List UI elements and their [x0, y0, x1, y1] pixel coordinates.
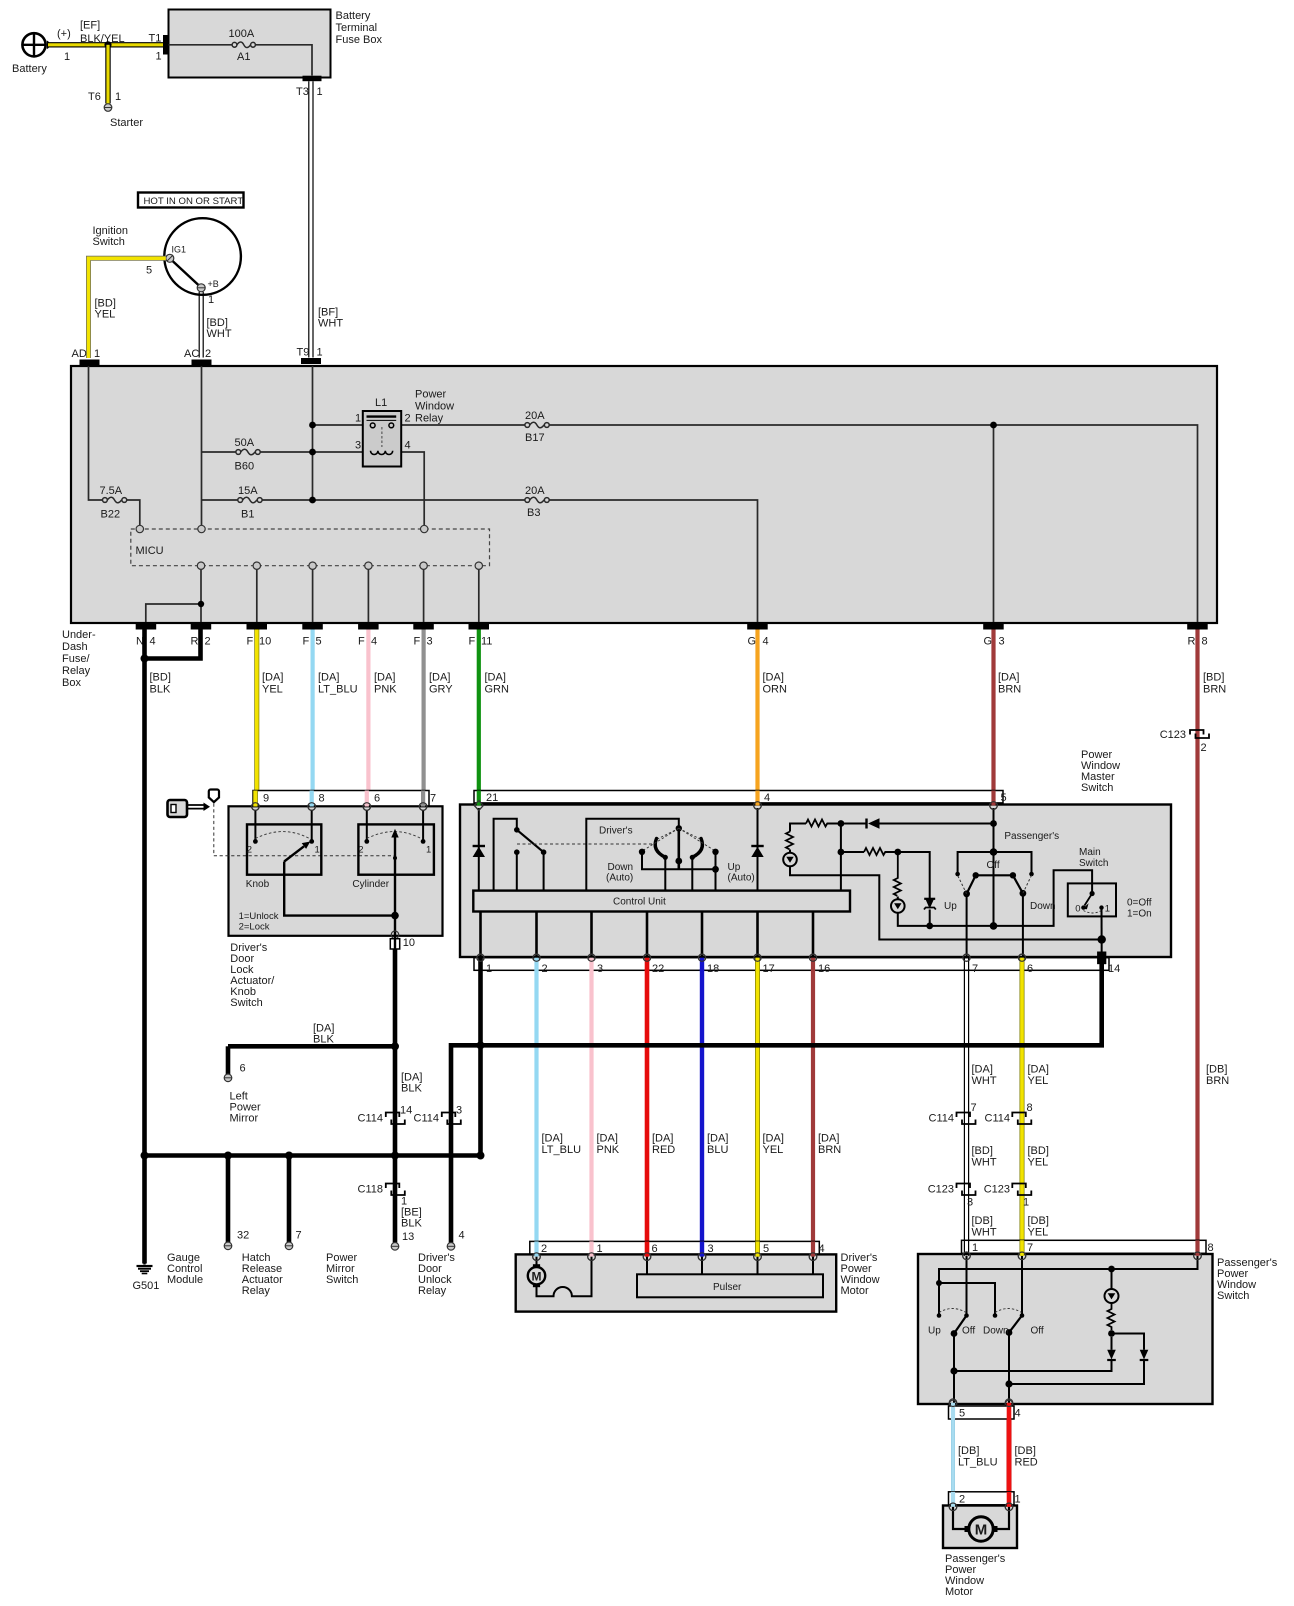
connector C114 pin7: [957, 1113, 976, 1125]
dashed mech link: [517, 843, 655, 845]
wire AD to B22 fuse: [89, 366, 103, 500]
hatch release actuator relay stub 7: [287, 1156, 292, 1243]
driver motor connector strip: [530, 1241, 820, 1254]
svg-text:RED: RED: [1015, 1457, 1038, 1469]
terminals 1 2 3 22 18 17 16 7 6 14: [477, 954, 1026, 961]
svg-text:[DB]: [DB]: [1015, 1445, 1036, 1457]
svg-text:1: 1: [355, 413, 361, 425]
left power mirror terminal 6: [226, 1046, 231, 1074]
svg-text:Battery: Battery: [336, 10, 371, 22]
svg-text:YEL: YEL: [1028, 1157, 1049, 1169]
terminals 21 4 5: [474, 801, 483, 811]
fuse B3 20A: [525, 498, 530, 503]
svg-text:2: 2: [205, 348, 211, 360]
svg-text:Module: Module: [167, 1274, 203, 1286]
svg-text:3: 3: [355, 440, 361, 452]
svg-text:G: G: [748, 636, 757, 648]
connector C123 pin3: [957, 1184, 976, 1196]
svg-text:20A: 20A: [525, 410, 545, 422]
SECTION: driver motor: [516, 969, 880, 1312]
connector T9 1: [301, 358, 321, 364]
svg-text:10: 10: [403, 937, 415, 949]
svg-text:F: F: [469, 636, 476, 648]
cylinder contact 2: [366, 810, 368, 839]
SECTION: top battery area: [12, 10, 382, 366]
connector C118 pin1 on pin10 wire: [386, 1184, 405, 1196]
connector C114 pin3: [442, 1113, 461, 1125]
relay L1 power window relay: [363, 411, 401, 467]
passenger switch terminals: [963, 1252, 1202, 1260]
svg-text:1: 1: [317, 347, 323, 359]
svg-text:BLU: BLU: [707, 1144, 728, 1156]
svg-text:8: 8: [1208, 1242, 1214, 1254]
pin7 to off contact: [1021, 1256, 1023, 1314]
passenger's switch feed: [993, 808, 995, 926]
svg-text:YEL: YEL: [1028, 1075, 1049, 1087]
svg-text:HOT IN ON OR START: HOT IN ON OR START: [144, 196, 244, 207]
svg-text:8: 8: [1027, 1102, 1033, 1114]
wire stubs master bottom strip: [478, 958, 483, 971]
zener diode: [925, 899, 934, 909]
svg-text:YEL: YEL: [763, 1144, 784, 1156]
svg-text:[DA]: [DA]: [707, 1133, 728, 1145]
passenger motor connector strip: [949, 1492, 1015, 1505]
wire BLK/YEL battery to T1: [48, 42, 163, 47]
wire MICU jog to N4: [146, 604, 201, 622]
driver's door unlock relay terminal 4: [447, 1243, 455, 1251]
wire stubs passenger top strip: [963, 1240, 965, 1256]
svg-text:3: 3: [427, 636, 433, 648]
svg-text:0: 0: [1075, 904, 1080, 915]
passenger bracket: [958, 852, 994, 872]
svg-text:3: 3: [967, 1197, 973, 1209]
node knob/cylinder common: [391, 912, 399, 920]
svg-text:21: 21: [486, 792, 498, 804]
node battery/starter junction: [104, 41, 111, 48]
wire MICU F11 output: [478, 569, 480, 622]
fuse B22 7.5A: [103, 498, 108, 503]
svg-text:Up: Up: [944, 901, 957, 912]
svg-text:R: R: [191, 636, 199, 648]
wire stubs passenger bottom strip: [951, 1403, 955, 1419]
svg-text:[DA]: [DA]: [818, 1133, 839, 1145]
wire B60 to T9 node: [260, 451, 313, 453]
svg-text:4: 4: [763, 636, 769, 648]
svg-text:Off: Off: [962, 1326, 975, 1337]
wire pin21 down: [478, 808, 480, 891]
node T9/relay3/B60: [309, 449, 316, 456]
wire F3 DA GRY: [422, 630, 426, 804]
main switch output: [1101, 908, 1103, 958]
wire pin2 DA LT_BLU: [534, 969, 538, 1252]
wire F4 DA PNK: [366, 630, 370, 804]
svg-text:4: 4: [819, 1243, 825, 1255]
svg-text:B22: B22: [101, 509, 121, 521]
passenger switch connector strip: [962, 1240, 1207, 1253]
svg-text:1=On: 1=On: [1127, 909, 1152, 920]
ignition switch: [164, 218, 241, 295]
wire DA BLK pin10 drop: [393, 949, 398, 1244]
svg-text:5: 5: [959, 1408, 965, 1420]
svg-text:Relay: Relay: [418, 1285, 447, 1297]
svg-text:Relay: Relay: [62, 665, 91, 677]
svg-text:Switch: Switch: [1081, 782, 1113, 794]
svg-text:Motor: Motor: [945, 1586, 973, 1598]
svg-text:F: F: [358, 636, 365, 648]
svg-text:Off: Off: [1031, 1326, 1044, 1337]
battery terminal fuse box: [169, 10, 331, 78]
svg-text:[EF]: [EF]: [80, 20, 100, 32]
svg-text:7: 7: [1027, 1242, 1033, 1254]
wire AC to B1 fuse: [202, 499, 239, 501]
svg-text:Relay: Relay: [415, 413, 444, 425]
svg-text:14: 14: [400, 1105, 412, 1117]
svg-text:1: 1: [597, 1243, 603, 1255]
master switch top connector strip: [474, 791, 1003, 803]
svg-text:2=Lock: 2=Lock: [239, 922, 270, 933]
svg-text:5: 5: [146, 265, 152, 277]
svg-text:F: F: [414, 636, 421, 648]
rotary far-left contact Down(Auto): [639, 849, 645, 855]
svg-text:[DA]: [DA]: [998, 672, 1019, 684]
left relay contact switch: [494, 819, 517, 891]
node B17/G3: [990, 422, 997, 429]
pin1 to off contact: [966, 1256, 968, 1314]
rotary right arc contact: [692, 839, 702, 858]
svg-text:5: 5: [316, 636, 322, 648]
svg-text:M: M: [532, 1269, 542, 1283]
svg-text:Mirror: Mirror: [230, 1113, 259, 1125]
svg-text:L1: L1: [375, 397, 387, 409]
wire N4 BD BLK to ground: [142, 630, 147, 1264]
main switch contacts: [1090, 891, 1095, 896]
svg-text:[DB]: [DB]: [1028, 1215, 1049, 1227]
svg-text:6: 6: [652, 1243, 658, 1255]
master bottom strip: [474, 958, 1109, 971]
svg-text:18: 18: [707, 963, 719, 975]
up contact: [937, 1313, 942, 1318]
svg-text:WHT: WHT: [318, 318, 343, 330]
wire pin18 DA BLU: [700, 969, 704, 1252]
svg-text:[DA]: [DA]: [374, 672, 395, 684]
passenger's power window switch box: [918, 1254, 1213, 1404]
wire pin4 down: [757, 808, 759, 891]
svg-text:2: 2: [959, 1494, 965, 1506]
motor M: [536, 1257, 538, 1267]
node T9/B1/B3: [309, 497, 316, 504]
wire B17 to R8: [549, 425, 1197, 622]
svg-text:1: 1: [94, 348, 100, 360]
svg-text:B1: B1: [241, 509, 254, 521]
svg-text:[BD]: [BD]: [1203, 672, 1224, 684]
svg-text:IG1: IG1: [172, 245, 187, 255]
svg-text:Starter: Starter: [110, 117, 143, 129]
wire stubs driver motor strip: [534, 1241, 538, 1256]
svg-text:[DA]: [DA]: [763, 672, 784, 684]
svg-text:1: 1: [972, 1242, 978, 1254]
pin 8 terminal: [308, 803, 316, 811]
svg-text:C114: C114: [929, 1113, 954, 1125]
svg-text:BLK: BLK: [313, 1034, 334, 1046]
svg-text:5: 5: [1001, 792, 1007, 804]
svg-text:[BD]: [BD]: [1028, 1145, 1049, 1157]
svg-text:1: 1: [64, 51, 70, 63]
svg-text:Switch: Switch: [1079, 858, 1108, 869]
MICU bottom terminals: [197, 562, 482, 569]
wire pin7 WHT down: [963, 969, 965, 1252]
rotary center pole: [677, 828, 680, 869]
gauge control module stub 32: [226, 1156, 231, 1243]
main switch box: [1068, 883, 1116, 916]
connector C114 pin8: [1012, 1113, 1031, 1125]
svg-text:Down: Down: [983, 1326, 1009, 1337]
svg-text:C118: C118: [358, 1184, 383, 1196]
svg-text:GRY: GRY: [429, 684, 453, 696]
rotary arc-bottom wires: [663, 855, 668, 860]
SECTION: master switch: [460, 749, 1171, 975]
svg-text:1: 1: [1105, 904, 1110, 915]
svg-text:Battery: Battery: [12, 63, 47, 75]
svg-text:BRN: BRN: [1206, 1075, 1229, 1087]
svg-text:2: 2: [541, 1243, 547, 1255]
svg-text:11: 11: [481, 636, 492, 648]
rotary dashed rays: [643, 828, 715, 850]
wire T9 to relay pin 1: [313, 424, 363, 426]
svg-text:6: 6: [1027, 963, 1033, 975]
svg-text:[DB]: [DB]: [958, 1445, 979, 1457]
wire G3 DA BRN: [991, 630, 995, 804]
svg-text:Fuse Box: Fuse Box: [336, 34, 383, 46]
svg-text:Pulser: Pulser: [713, 1282, 742, 1293]
MICU dashed box: [131, 529, 490, 566]
svg-text:Switch: Switch: [93, 236, 125, 248]
driver's door lock actuator box: [229, 806, 443, 936]
motor loop to pin1: [537, 1257, 592, 1297]
svg-text:14: 14: [1108, 963, 1120, 975]
svg-text:WHT: WHT: [972, 1227, 997, 1239]
wire BF WHT T3 to T9: [308, 81, 310, 357]
svg-text:C114: C114: [985, 1113, 1010, 1125]
svg-text:WHT: WHT: [207, 328, 232, 340]
wire pin16 DA BRN: [811, 969, 815, 1252]
resistor vertical B: [894, 852, 901, 896]
wire B3 to G4: [549, 500, 757, 622]
svg-text:BRN: BRN: [1203, 684, 1226, 696]
node R2/N4 jog: [198, 601, 204, 607]
LED B to mid rail: [898, 870, 1092, 926]
svg-text:1: 1: [486, 963, 492, 975]
terminal IG1: [166, 254, 174, 262]
wire R2 jog to N4: [145, 630, 201, 659]
svg-text:2: 2: [358, 845, 363, 856]
svg-text:7: 7: [296, 1230, 302, 1242]
svg-text:[DA]: [DA]: [262, 672, 283, 684]
LED passenger: [1111, 1269, 1113, 1289]
svg-text:7: 7: [971, 1102, 977, 1114]
svg-text:[BD]: [BD]: [972, 1145, 993, 1157]
resistor passenger: [1108, 1303, 1115, 1330]
wire left power mirror branch: [228, 1044, 395, 1049]
svg-text:50A: 50A: [235, 437, 255, 449]
svg-text:1: 1: [317, 86, 323, 98]
connector AC 2: [192, 360, 212, 366]
wire MICU F4 output: [367, 569, 369, 622]
svg-text:Switch: Switch: [1217, 1290, 1249, 1302]
svg-text:RED: RED: [652, 1144, 675, 1156]
power mirror switch terminal 13: [391, 1243, 399, 1251]
svg-text:ORN: ORN: [763, 684, 788, 696]
svg-text:13: 13: [402, 1231, 414, 1243]
svg-text:1: 1: [208, 294, 214, 306]
svg-text:7: 7: [430, 793, 436, 805]
svg-text:7.5A: 7.5A: [100, 485, 123, 497]
diode 1: [1107, 1350, 1116, 1360]
connector T1: [163, 35, 169, 55]
svg-text:(Auto): (Auto): [606, 873, 633, 884]
LED A: [789, 850, 791, 853]
svg-text:2: 2: [205, 636, 211, 648]
resistor vertical A: [786, 832, 793, 850]
driver's rotary switch frame: [586, 819, 679, 891]
wire DB LT_BLU: [951, 1419, 955, 1492]
svg-text:0=Off: 0=Off: [1127, 898, 1152, 909]
svg-text:Switch: Switch: [230, 997, 262, 1009]
wire BD YEL IG1 to AD: [89, 258, 166, 358]
pin8 power rail: [939, 1256, 1198, 1314]
svg-text:Off: Off: [987, 860, 1000, 871]
LED A to bottom rail: [790, 866, 1102, 939]
svg-text:GRN: GRN: [485, 684, 510, 696]
svg-text:Down: Down: [608, 862, 634, 873]
svg-text:20A: 20A: [525, 485, 545, 497]
knob switch box: [247, 824, 321, 874]
resistor horizontal B: [864, 848, 886, 855]
wire master pin1 down: [478, 971, 483, 1156]
motor terminals: [533, 1253, 817, 1261]
SECTION: passenger side: [918, 969, 1278, 1598]
svg-text:2: 2: [542, 963, 548, 975]
under-dash fuse/relay box: [71, 366, 1217, 623]
wire pin6 YEL down: [1020, 969, 1025, 1252]
ground bus horizontal: [145, 1153, 481, 1158]
svg-text:YEL: YEL: [1028, 1227, 1049, 1239]
svg-text:WHT: WHT: [972, 1157, 997, 1169]
passenger switch bottom strip: [949, 1400, 1013, 1408]
connector C123 pin2 on R8: [1190, 730, 1209, 738]
pin 9 terminal: [252, 803, 260, 811]
diode on pin21 wire: [473, 847, 485, 857]
svg-text:32: 32: [237, 1230, 249, 1242]
svg-text:BLK: BLK: [401, 1218, 422, 1230]
connector T3: [303, 76, 322, 82]
cylinder lever arrow up: [394, 834, 396, 916]
svg-text:Switch: Switch: [326, 1274, 358, 1286]
wire fuse to T3: [255, 45, 312, 76]
key symbol: [168, 800, 188, 817]
svg-text:Passenger's: Passenger's: [1004, 831, 1059, 842]
svg-text:Down: Down: [1030, 901, 1056, 912]
svg-text:(+): (+): [57, 28, 71, 40]
svg-text:WHT: WHT: [972, 1075, 997, 1087]
pin 7 terminal: [419, 803, 427, 811]
pin 10 terminal: [394, 916, 396, 949]
svg-text:C123: C123: [1160, 729, 1186, 741]
diode to pin5 line: [865, 819, 867, 829]
pin 6 terminal: [363, 803, 371, 811]
HOT IN ON OR START: [138, 193, 244, 208]
terminal +B: [197, 284, 205, 292]
SECTION: wire overlays through connector strips: [252, 791, 1202, 1511]
wire G4 DA ORN: [755, 630, 759, 804]
svg-text:4: 4: [1015, 1408, 1021, 1420]
wire B1 to B3 fuse: [262, 499, 525, 501]
fuse B1 15A: [238, 498, 243, 503]
left lever: [951, 1330, 958, 1337]
terminals 9 8 6 7: [252, 803, 427, 811]
svg-text:Driver's: Driver's: [599, 826, 633, 837]
svg-text:[DA]: [DA]: [972, 1064, 993, 1076]
svg-text:8: 8: [319, 793, 325, 805]
svg-text:1: 1: [1015, 1494, 1021, 1506]
svg-text:C123: C123: [928, 1184, 954, 1196]
svg-text:1: 1: [426, 845, 431, 856]
svg-text:BLK: BLK: [150, 684, 171, 696]
svg-text:Under-: Under-: [62, 629, 96, 641]
wire F11 DA GRN: [477, 630, 481, 804]
svg-text:3: 3: [456, 1105, 462, 1117]
wire B17 branch to G3: [993, 425, 995, 622]
svg-text:5: 5: [763, 1243, 769, 1255]
svg-text:4: 4: [371, 636, 377, 648]
wire to zener: [898, 852, 930, 899]
svg-text:YEL: YEL: [262, 684, 283, 696]
rotary far-right contact Up(Auto): [712, 849, 718, 855]
svg-text:[DB]: [DB]: [1206, 1064, 1227, 1076]
wire stubs door lock strip: [253, 791, 258, 807]
door lock connector strip: [253, 791, 429, 807]
power window master switch box: [460, 805, 1171, 958]
svg-text:Fuse/: Fuse/: [62, 653, 90, 665]
svg-text:[DA]: [DA]: [429, 672, 450, 684]
svg-text:AD: AD: [72, 348, 87, 360]
rotary left arc contact: [655, 839, 665, 858]
svg-text:Relay: Relay: [242, 1285, 271, 1297]
svg-text:[DA]: [DA]: [652, 1133, 673, 1145]
wire AC to B60 fuse: [202, 451, 237, 453]
svg-text:[DA]: [DA]: [763, 1133, 784, 1145]
wire relay pin 4 to MICU: [401, 452, 424, 526]
svg-text:LT_BLU: LT_BLU: [958, 1457, 998, 1469]
dashed key linkage: [214, 804, 395, 856]
wire relay pin 3: [313, 451, 363, 453]
svg-text:PNK: PNK: [597, 1144, 620, 1156]
wire stubs master top strip: [477, 791, 481, 806]
svg-text:4: 4: [459, 1230, 465, 1242]
node T9/relay1: [309, 422, 316, 429]
svg-text:T9: T9: [297, 347, 310, 359]
svg-text:AC: AC: [184, 348, 199, 360]
svg-text:C114: C114: [358, 1113, 383, 1125]
branch to diode 2: [1112, 1334, 1145, 1350]
svg-text:3: 3: [999, 636, 1005, 648]
battery: [22, 33, 45, 56]
SECTION: under-dash fuse relay box: [62, 366, 1217, 689]
wire pole5 to diode1: [954, 1361, 1112, 1371]
wire MICU F5 output: [312, 569, 314, 622]
knob contact 2: [254, 810, 256, 839]
svg-text:1: 1: [156, 51, 162, 63]
down contact: [993, 1313, 998, 1318]
